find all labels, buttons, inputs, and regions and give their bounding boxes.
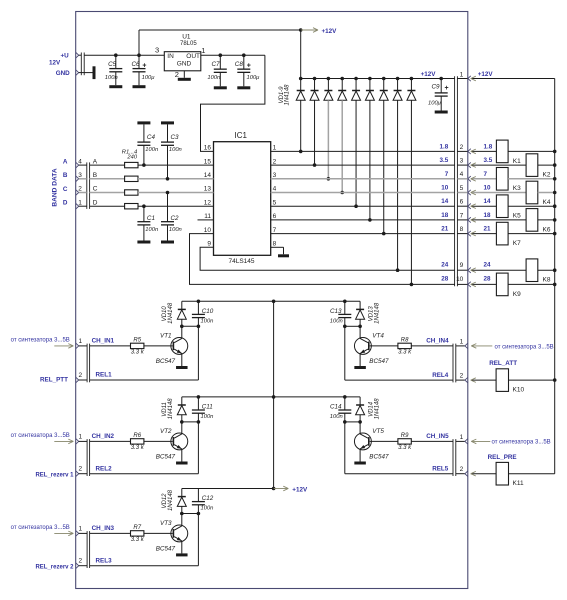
svg-text:1N4148: 1N4148 <box>285 84 291 106</box>
junction rail center (bottom) <box>272 487 276 491</box>
svg-text:1: 1 <box>460 434 464 441</box>
net label +12V (bottom) <box>292 487 308 494</box>
svg-text:2: 2 <box>79 372 83 379</box>
svg-text:2: 2 <box>460 144 464 151</box>
wire IC1 pin 4 output row <box>271 192 455 194</box>
wire pin 9 stub <box>457 269 468 271</box>
relay K7 <box>496 222 508 245</box>
connector pin 3 (BAND DATA) <box>76 176 79 181</box>
pin number 3 (BAND DATA) <box>78 172 82 179</box>
svg-text:16: 16 <box>204 145 212 152</box>
svg-text:+12V: +12V <box>322 28 338 35</box>
junction C14 node <box>343 420 347 424</box>
label C10 <box>202 308 214 315</box>
junction rail center (mid) <box>272 395 276 399</box>
svg-text:C9: C9 <box>432 84 441 91</box>
wire input C to IC1 <box>138 192 214 194</box>
junction C7 <box>219 53 223 57</box>
svg-text:100μ: 100μ <box>247 75 261 81</box>
label 100n (C4) <box>145 147 158 153</box>
pin number 1 (BAND DATA) <box>78 199 82 206</box>
wire base VT4 <box>370 345 398 347</box>
pin label 3 (U1 IN) <box>155 46 159 55</box>
wire collector VT1 <box>181 326 183 338</box>
label 3.3 k (R8) <box>398 350 412 356</box>
svg-text:CH_IN5: CH_IN5 <box>426 433 449 440</box>
label 1N4148 (VD14, rotated) <box>375 398 381 420</box>
label VD10 (rotated) <box>162 306 168 322</box>
junction diode VD9 bus <box>410 77 414 81</box>
net label 24 (outside) <box>484 261 492 268</box>
label K1 <box>513 158 521 165</box>
svg-text:100n: 100n <box>201 414 214 420</box>
diode VD6 1N4148 <box>365 79 374 220</box>
net label 10 (outside row 4) <box>484 185 492 192</box>
wire input A left <box>79 164 125 166</box>
pin number 8 (right connector) <box>460 226 464 233</box>
ground (C2) <box>161 241 174 244</box>
svg-text:1.8: 1.8 <box>440 143 449 150</box>
wire pin 3 stub <box>457 164 468 166</box>
label U1 <box>182 33 191 40</box>
svg-text:VT5: VT5 <box>372 428 384 435</box>
wire base VT5 <box>370 440 398 442</box>
wire +12V diode bus <box>301 78 455 80</box>
pin number 7 (right connector) <box>460 212 464 219</box>
label VD12 (rotated) <box>162 493 168 509</box>
net label 24 (inside) <box>441 261 449 268</box>
junction VD1 output row <box>299 150 303 154</box>
wire node VT3 <box>182 513 199 515</box>
net label REL4 <box>432 372 449 379</box>
wire REL row <box>90 422 199 474</box>
svg-text:100n: 100n <box>145 147 158 153</box>
ground (emitter VT2) <box>176 462 188 465</box>
wire to relay K4 <box>471 190 526 195</box>
svg-text:100n: 100n <box>201 506 214 512</box>
connector body (driver cell) <box>87 344 90 383</box>
connector body (driver cell) <box>453 439 456 476</box>
svg-text:3.3 k: 3.3 k <box>131 350 145 356</box>
label от синтезатора 3...5В (left) <box>11 433 70 439</box>
label 3.3 k (R7) <box>131 537 145 543</box>
junction C8 <box>242 53 246 57</box>
diode VD9 1N4148 <box>407 79 416 285</box>
resistor R6 <box>131 439 144 444</box>
svg-text:9: 9 <box>207 241 211 248</box>
svg-text:4: 4 <box>273 186 277 193</box>
label 100n (C1) <box>145 227 158 233</box>
svg-text:3: 3 <box>155 46 159 55</box>
connector body (driver cell) <box>87 531 90 568</box>
svg-text:100n: 100n <box>105 75 118 81</box>
pin number 2 (REL4) <box>460 373 464 380</box>
transistor VT2 BC547 <box>171 433 188 450</box>
IC U1 74LS145 body IC1 <box>214 142 271 256</box>
plus sign (C9) <box>445 85 449 92</box>
wire base VT1 <box>144 345 173 347</box>
svg-text:100n: 100n <box>145 227 158 233</box>
net label A (blue) <box>63 159 68 166</box>
input arrow (left) <box>54 439 73 444</box>
svg-text:K7: K7 <box>513 240 521 247</box>
capacitor C2 <box>161 193 174 241</box>
svg-text:1: 1 <box>79 338 83 345</box>
svg-text:OUT: OUT <box>186 53 200 60</box>
svg-text:VT2: VT2 <box>160 428 172 435</box>
svg-text:100n: 100n <box>207 75 220 81</box>
capacitor C5 <box>109 55 122 85</box>
junction rail K3 <box>553 177 557 181</box>
svg-text:1: 1 <box>460 338 464 345</box>
wire REL5 stub <box>456 473 465 475</box>
svg-text:C7: C7 <box>212 61 221 68</box>
svg-text:от синтезатора 3...5В: от синтезатора 3...5В <box>11 525 70 531</box>
connector pin 2 (REL3) <box>76 563 79 568</box>
svg-text:+12V: +12V <box>292 487 308 494</box>
label K11 <box>513 480 524 487</box>
pin number 2 (BAND DATA) <box>78 186 82 193</box>
svg-text:B: B <box>93 172 97 179</box>
wire CH_IN1 stub <box>79 345 87 347</box>
wire IC1 pin 6 output row <box>271 219 455 221</box>
connector body (driver cell) <box>453 344 456 383</box>
junction rail K1 <box>553 150 557 154</box>
resistor R3 <box>125 190 138 195</box>
svg-text:REL_PTT: REL_PTT <box>40 377 68 384</box>
svg-text:1N4148: 1N4148 <box>375 302 381 324</box>
relay K5 <box>496 195 508 218</box>
wire collector VT5 <box>359 422 361 434</box>
svg-text:REL_ATT: REL_ATT <box>489 360 517 367</box>
connector X2 body (BAND DATA) <box>87 162 90 209</box>
label 74LS145 <box>228 258 254 265</box>
label 100n (C7) <box>207 75 220 81</box>
junction VD13 node <box>358 325 362 329</box>
label 78L05 <box>180 41 197 47</box>
transistor VT3 BC547 <box>171 525 188 542</box>
net label 21 (outside row 7) <box>484 226 492 233</box>
svg-text:C2: C2 <box>171 215 180 222</box>
diode VD10 1N4148 <box>177 301 186 326</box>
label VD11 (rotated) <box>162 402 168 417</box>
ground (C5) <box>109 85 122 88</box>
wire CH_IN3 stub <box>79 532 87 534</box>
wire relay K8 to rail <box>538 269 555 271</box>
svg-text:3.5: 3.5 <box>484 157 493 164</box>
label 100n (C5) <box>105 75 118 81</box>
junction C10 node <box>197 325 201 329</box>
svg-text:7: 7 <box>460 212 464 219</box>
connector pin 1 (CH_IN5) <box>465 439 468 444</box>
svg-text:3.3 k: 3.3 k <box>398 445 412 451</box>
svg-text:C: C <box>93 186 98 193</box>
label C13 <box>330 308 342 315</box>
junction diode VD1 bus <box>299 77 303 81</box>
svg-text:VT4: VT4 <box>372 332 384 339</box>
relay K6 <box>526 209 538 232</box>
label 100n (C12) <box>201 506 214 512</box>
junction rail K8 <box>553 268 557 272</box>
diode VD8 1N4148 <box>393 79 402 271</box>
wire relay K4 to rail <box>538 192 555 194</box>
svg-text:100μ: 100μ <box>428 101 442 107</box>
wire to relay K7 <box>471 231 497 236</box>
net label 1.8 (outside row 1) <box>484 143 493 150</box>
pin number 4 (right connector) <box>460 171 464 178</box>
wire relay K1 to rail <box>508 150 555 152</box>
wire +12V to right connector <box>457 78 468 80</box>
pin number 9 (IC1 left) <box>207 241 211 248</box>
svg-text:C11: C11 <box>202 403 213 410</box>
diode VD13 1N4148 <box>356 301 365 326</box>
net label +U <box>60 53 69 60</box>
label C5 <box>108 61 117 68</box>
label 100μ (C8) <box>247 75 261 81</box>
junction rail C10 <box>197 300 201 304</box>
label C4 <box>147 134 156 141</box>
junction rail K10 <box>553 378 557 382</box>
connector pin GND <box>76 70 79 75</box>
pin number 6 (right connector) <box>460 199 464 206</box>
svg-text:28: 28 <box>484 276 492 283</box>
label IN (U1) <box>167 53 174 60</box>
svg-text:K1: K1 <box>513 158 521 165</box>
schematic sheet border frame <box>76 12 468 589</box>
connector pin 8 (right) <box>468 231 471 236</box>
connector pin 2 (REL1) <box>76 377 79 382</box>
svg-text:7: 7 <box>445 171 449 178</box>
connector X1 body <box>81 53 84 76</box>
junction C13 node <box>343 325 347 329</box>
svg-text:4: 4 <box>460 171 464 178</box>
capacitor C14 <box>338 397 351 422</box>
label VD14 (rotated) <box>369 401 375 417</box>
svg-text:C1: C1 <box>147 215 155 222</box>
label K9 <box>513 291 521 298</box>
svg-text:5: 5 <box>273 199 277 206</box>
svg-text:C12: C12 <box>202 495 214 502</box>
label C9 <box>432 84 441 91</box>
pin number 7 (IC1 right) <box>273 227 277 234</box>
net label REL_ATT <box>489 360 517 367</box>
input arrow CH_IN5 (right) <box>471 439 490 444</box>
connector pin 1 (CH_IN3) <box>76 531 79 536</box>
svg-text:15: 15 <box>204 158 212 165</box>
svg-text:K5: K5 <box>513 213 521 220</box>
svg-text:14: 14 <box>204 172 212 179</box>
wire input to R5 <box>90 345 131 347</box>
label IC1 <box>235 131 248 140</box>
wire +12V arrow (bottom) <box>274 486 289 491</box>
svg-text:GND: GND <box>56 70 70 77</box>
svg-text:K8: K8 <box>543 277 551 284</box>
label 1N4148 (VD12, rotated) <box>168 489 174 511</box>
net label 3.5 (outside row 2) <box>484 157 493 164</box>
junction C6 <box>137 53 141 57</box>
svg-text:+12V: +12V <box>421 71 437 78</box>
capacitor C10 <box>192 301 205 326</box>
svg-text:C5: C5 <box>108 61 117 68</box>
connector pin 10 (right) <box>468 282 471 287</box>
wire 5V supply to IC1 pin 16 <box>201 55 265 151</box>
wire REL row <box>345 326 453 380</box>
label 100n (C10) <box>201 319 214 325</box>
ground (IC1 pin 8) <box>278 254 289 257</box>
ground (U1 pin 2) <box>178 78 191 81</box>
wire REL row <box>345 422 453 474</box>
label 100n (C11) <box>201 414 214 420</box>
input arrow (left) <box>54 344 73 349</box>
svg-text:3.3 k: 3.3 k <box>131 445 145 451</box>
pin number 4 (BAND DATA) <box>78 158 82 165</box>
wire to relay K5 <box>471 204 497 209</box>
pin 2 wire (U1 GND) <box>183 71 185 78</box>
label OUT (U1) <box>186 53 200 60</box>
wire relay K7 to rail <box>508 233 555 235</box>
net label REL_rezerv 2 <box>35 565 74 571</box>
wire emitter VT5 <box>359 449 361 462</box>
connector pin 4 (right) <box>468 176 471 181</box>
label 100n (C3) <box>169 147 182 153</box>
wire to relay K2 <box>471 163 526 168</box>
svg-text:C: C <box>63 186 68 193</box>
svg-text:C6: C6 <box>132 61 141 68</box>
ground (C9) <box>435 111 448 114</box>
net label +12V (outside) <box>478 71 494 78</box>
junction rail center (top) <box>272 300 276 304</box>
svg-text:2: 2 <box>79 558 83 565</box>
net label CH_IN2 <box>92 433 115 440</box>
junction C1 / input D <box>142 204 146 208</box>
svg-text:1: 1 <box>78 199 82 206</box>
label 100n (C13) <box>330 319 343 325</box>
net label REL1 <box>96 372 113 379</box>
pin number 2 (right connector) <box>460 144 464 151</box>
junction C11 node <box>197 420 201 424</box>
net label CH_IN1 <box>92 338 115 345</box>
svg-text:IC1: IC1 <box>235 131 248 140</box>
svg-text:2: 2 <box>78 186 82 193</box>
svg-text:R6: R6 <box>133 433 141 439</box>
junction VD5 output row <box>354 204 358 208</box>
wire relay K2 to rail <box>538 164 555 166</box>
net label 14 (inside row 5) <box>441 198 449 205</box>
svg-text:5: 5 <box>460 185 464 192</box>
svg-text:D: D <box>93 199 98 206</box>
junction C5 <box>114 53 118 57</box>
diode VD2 1N4148 <box>310 79 319 166</box>
capacitor C9 <box>435 79 448 111</box>
wire emitter VT3 <box>181 541 183 554</box>
net label CH_IN3 <box>92 525 115 532</box>
svg-text:C14: C14 <box>330 403 342 410</box>
wire to relay K3 <box>471 177 497 182</box>
label K8 <box>543 277 551 284</box>
junction rail C11 <box>197 395 201 399</box>
svg-text:+12V: +12V <box>478 71 494 78</box>
svg-text:C10: C10 <box>202 308 214 315</box>
svg-text:R7: R7 <box>133 525 141 531</box>
label R1...4 <box>122 149 137 155</box>
connector pin 1 (CH_IN4) <box>465 343 468 348</box>
wire input D left <box>79 205 125 207</box>
svg-text:+: + <box>142 63 146 70</box>
ground (C7) <box>214 86 227 89</box>
svg-text:2: 2 <box>175 70 179 79</box>
svg-text:CH_IN4: CH_IN4 <box>426 338 449 345</box>
ground bar (power connector) <box>93 66 96 79</box>
connector X3 body (right) <box>455 76 458 286</box>
label C1 <box>147 215 155 222</box>
junction C4 / input A <box>142 163 146 167</box>
wire CH_IN4 stub <box>456 345 465 347</box>
pin number 2 (IC1 right) <box>273 158 277 165</box>
net label CH_IN4 <box>426 338 449 345</box>
wire relay K10 to rail <box>509 379 555 381</box>
svg-text:R5: R5 <box>133 337 141 343</box>
label D (black) <box>93 199 98 206</box>
connector pin 3 (right) <box>468 162 471 167</box>
svg-text:3: 3 <box>78 172 82 179</box>
resistor R5 <box>131 343 144 348</box>
net label +12V (top) <box>322 28 338 35</box>
net label 7 (outside row 3) <box>484 171 488 178</box>
wire to relay K1 <box>471 149 497 154</box>
pin label 2 (U1 GND) <box>175 70 179 79</box>
label от синтезатора 3...5В (right) <box>492 440 551 446</box>
pin number 12 (IC1 left) <box>204 199 212 206</box>
connector pin 6 (right) <box>468 204 471 209</box>
junction C3 / input B <box>166 177 170 181</box>
net label 7 (inside row 3) <box>445 171 449 178</box>
pin number 1 (IC1 right) <box>273 145 277 152</box>
label от синтезатора 3...5В (left) <box>11 525 70 531</box>
label 100μ (C6) <box>142 75 156 81</box>
label 100n (C2) <box>169 227 182 233</box>
svg-text:28: 28 <box>441 276 449 283</box>
svg-text:240: 240 <box>126 155 137 161</box>
ground (C1) <box>137 241 150 244</box>
junction VD7 output row <box>382 232 386 236</box>
wire pin 4 stub <box>457 178 468 180</box>
connector pin 4 (BAND DATA) <box>76 162 79 167</box>
svg-text:21: 21 <box>484 226 492 233</box>
svg-text:1N4148: 1N4148 <box>168 398 174 420</box>
label BC547 (VT4) <box>369 358 389 365</box>
connector pin 2 (BAND DATA) <box>76 190 79 195</box>
svg-text:74LS145: 74LS145 <box>228 258 254 265</box>
svg-text:REL3: REL3 <box>96 557 113 564</box>
junction C2 / input C <box>166 191 170 195</box>
wire +12V top <box>139 30 301 55</box>
label 3.3 k (R5) <box>131 350 145 356</box>
svg-text:1: 1 <box>79 433 83 440</box>
svg-text:K11: K11 <box>513 480 524 487</box>
svg-text:BC547: BC547 <box>369 358 389 365</box>
wire REL1 stub <box>79 379 87 381</box>
svg-text:C8: C8 <box>235 61 244 68</box>
label BC547 (VT3) <box>156 545 176 552</box>
label BC547 (VT1) <box>156 358 176 365</box>
relay K8 <box>526 259 538 282</box>
svg-text:от синтезатора 3...5В: от синтезатора 3...5В <box>492 440 551 446</box>
svg-text:BC547: BC547 <box>156 358 176 365</box>
wire CH_IN2 stub <box>79 440 87 442</box>
junction diode VD3 bus <box>327 77 331 81</box>
pin number 16 (IC1 left) <box>204 145 212 152</box>
diode VD11 1N4148 <box>177 397 186 422</box>
